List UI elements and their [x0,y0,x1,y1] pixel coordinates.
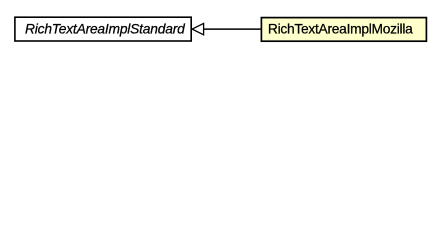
class box RichTextAreaImplStandard [15,17,191,41]
svg-text:RichTextAreaImplMozilla: RichTextAreaImplMozilla [268,21,413,36]
background [0,0,441,59]
wire inheritance connector [203,28,260,30]
svg-text:RichTextAreaImplStandard: RichTextAreaImplStandard [25,21,186,36]
class box RichTextAreaImplMozilla [261,18,426,42]
inheritance arrowhead (hollow triangle) [192,23,203,34]
